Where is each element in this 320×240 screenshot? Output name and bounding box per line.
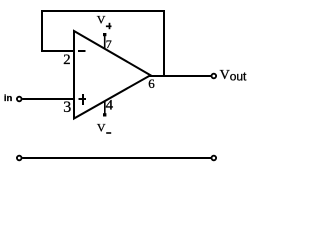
wire: bottom common rail xyxy=(22,157,211,159)
pin 7 V+ supply dot xyxy=(103,33,106,36)
svg-text:V: V xyxy=(220,68,230,83)
svg-text:4: 4 xyxy=(106,97,114,113)
svg-text:2: 2 xyxy=(63,52,70,68)
op-amp non-inverting input marker (+) xyxy=(79,94,87,105)
svg-text:out: out xyxy=(230,70,247,84)
op-amp inverting input marker (-) xyxy=(78,50,86,52)
terminal: input (open circle) xyxy=(17,97,22,102)
wire: output from pin 6 to Vout terminal xyxy=(149,75,211,77)
svg-text:V: V xyxy=(97,12,106,26)
terminal: Vout (open circle) xyxy=(212,74,217,79)
svg-text:V: V xyxy=(97,121,106,135)
net label Vout xyxy=(220,68,247,83)
wire: input from in terminal to pin 3 xyxy=(22,98,74,100)
pin 4 V- supply dot xyxy=(103,113,106,116)
net label V- xyxy=(97,121,111,135)
op-amp U1 triangle body xyxy=(74,31,151,119)
svg-text:3: 3 xyxy=(63,99,71,116)
pin 4 V- supply stub xyxy=(104,101,106,114)
pin 7 V+ supply stub xyxy=(104,35,106,49)
terminal: bottom rail right (open circle) xyxy=(212,156,217,161)
svg-text:6: 6 xyxy=(148,76,155,91)
terminal: bottom rail left (open circle) xyxy=(17,156,22,161)
svg-text:7: 7 xyxy=(106,37,112,51)
wire: feedback loop from output node through top to pin 2 inverting input xyxy=(42,11,164,76)
svg-text:in: in xyxy=(4,93,13,104)
net label V+ xyxy=(97,12,112,29)
